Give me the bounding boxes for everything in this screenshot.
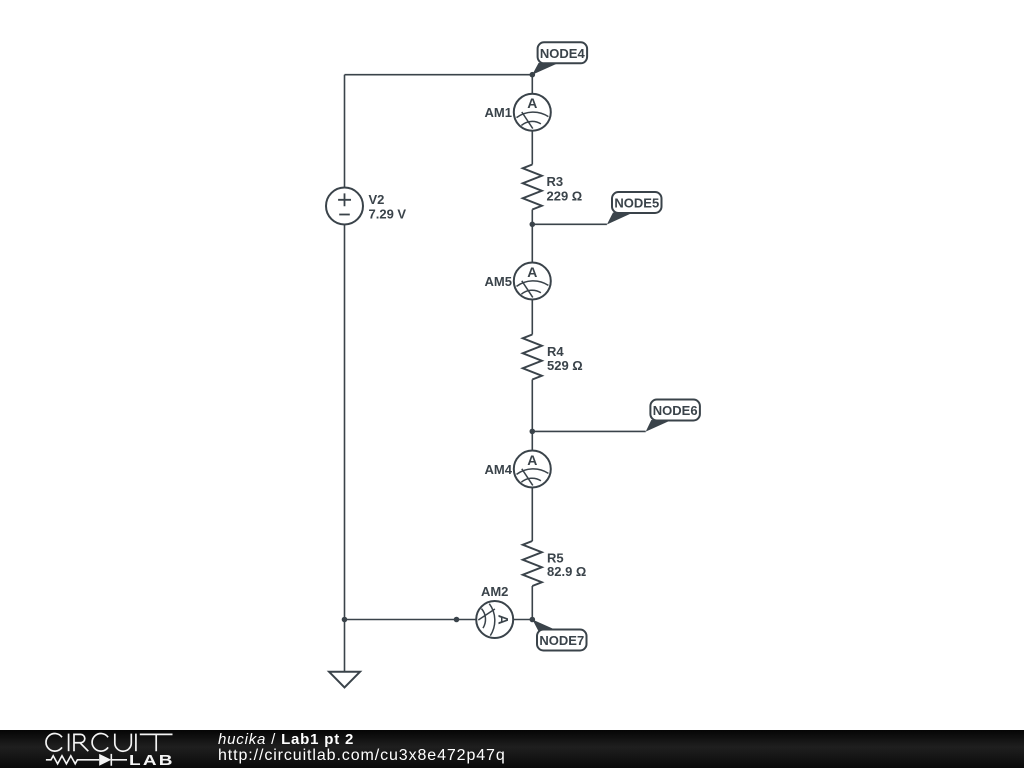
svg-text:529 Ω: 529 Ω [547, 358, 583, 373]
junction node at NODE4 [530, 72, 536, 78]
wire R3 bottom to NODE5 junction and AM5 top [531, 210, 533, 263]
svg-text:LAB: LAB [129, 751, 175, 768]
label R4 value 529 [547, 344, 583, 373]
svg-text:A: A [527, 95, 537, 111]
node NODE6 flag [646, 400, 700, 432]
wire R4 bottom to NODE6 junction and AM4 top [531, 380, 533, 451]
ammeter AM4 [514, 451, 551, 488]
svg-text:AM4: AM4 [485, 462, 513, 477]
junction node at AM2 left terminal [454, 617, 460, 623]
CircuitLab wordmark CIRCUIT [46, 734, 173, 752]
node NODE7 flag [532, 620, 586, 651]
node NODE5 flag [607, 192, 662, 225]
wire NODE4 junction to AM1 top [531, 75, 533, 94]
svg-text:NODE5: NODE5 [614, 196, 659, 211]
wire ground stem [344, 620, 346, 672]
node NODE4 flag [532, 42, 587, 74]
logo diode bar and wire [111, 754, 127, 766]
junction node at NODE7 [530, 617, 536, 623]
svg-text:229 Ω: 229 Ω [547, 189, 583, 204]
resistor R5 [523, 541, 542, 586]
svg-text:NODE7: NODE7 [539, 633, 584, 648]
junction node at NODE6 [530, 429, 536, 435]
junction node at NODE5 [530, 222, 536, 228]
label R3 value 229 [547, 174, 583, 204]
voltage source V2 [326, 188, 363, 225]
svg-text:AM1: AM1 [485, 105, 512, 120]
svg-text:NODE4: NODE4 [540, 46, 586, 61]
svg-text:82.9 Ω: 82.9 Ω [547, 564, 586, 579]
wire AM1 bottom to R3 top [531, 131, 533, 165]
svg-text:A: A [496, 614, 512, 624]
ground [329, 672, 360, 688]
wire NODE5 junction horizontal stub [532, 223, 607, 225]
label V2 value [369, 192, 407, 222]
svg-text:R3: R3 [547, 174, 564, 189]
svg-text:V2: V2 [369, 192, 385, 207]
resistor R4 [523, 335, 542, 380]
ammeter AM1 [514, 94, 551, 131]
wire AM5 bottom to R4 top [531, 300, 533, 335]
svg-text:AM5: AM5 [485, 274, 512, 289]
resistor R3 [523, 165, 542, 210]
svg-text:A: A [527, 452, 537, 468]
wire left vertical from top corner to V2 positive terminal [344, 75, 346, 188]
wire bottom rail from ground node to AM2 left terminal [345, 619, 476, 621]
wire left vertical from V2 negative terminal to bottom rail [344, 225, 346, 620]
logo resistor zigzag [46, 754, 127, 766]
svg-text:NODE6: NODE6 [653, 403, 698, 418]
label R5 value 82.9 [547, 551, 586, 580]
junction node at ground rail [342, 617, 348, 623]
svg-text:A: A [527, 264, 537, 280]
wire AM2 right terminal to NODE7 junction [513, 619, 532, 621]
wire AM4 bottom to R5 top [531, 488, 533, 542]
svg-text:7.29 V: 7.29 V [369, 207, 407, 222]
svg-text:AM2: AM2 [481, 584, 508, 599]
ammeter AM2 (rotated horizontal) [476, 601, 513, 638]
wire top horizontal from V2 to NODE4 junction [345, 74, 533, 76]
wire R5 bottom to NODE7 junction [531, 586, 533, 620]
ammeter AM5 [514, 263, 551, 300]
wire NODE6 junction horizontal stub [532, 430, 645, 432]
logo diode triangle [99, 754, 111, 766]
